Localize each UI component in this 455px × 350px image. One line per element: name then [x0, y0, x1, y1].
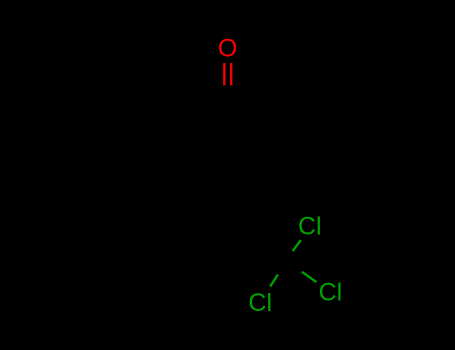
svg-text:Cl: Cl: [298, 213, 322, 241]
bond C-Cl to bottom-left chlorine (green half): [270, 275, 278, 287]
svg-text:Cl: Cl: [319, 279, 343, 307]
C=O double bond (red half, two parallel lines): [224, 63, 231, 85]
bond C-Cl to top chlorine (green half): [293, 240, 301, 251]
svg-text:O: O: [218, 35, 237, 63]
bond C-Cl to bottom-right chlorine (green half): [302, 272, 317, 282]
svg-text:Cl: Cl: [248, 289, 272, 317]
